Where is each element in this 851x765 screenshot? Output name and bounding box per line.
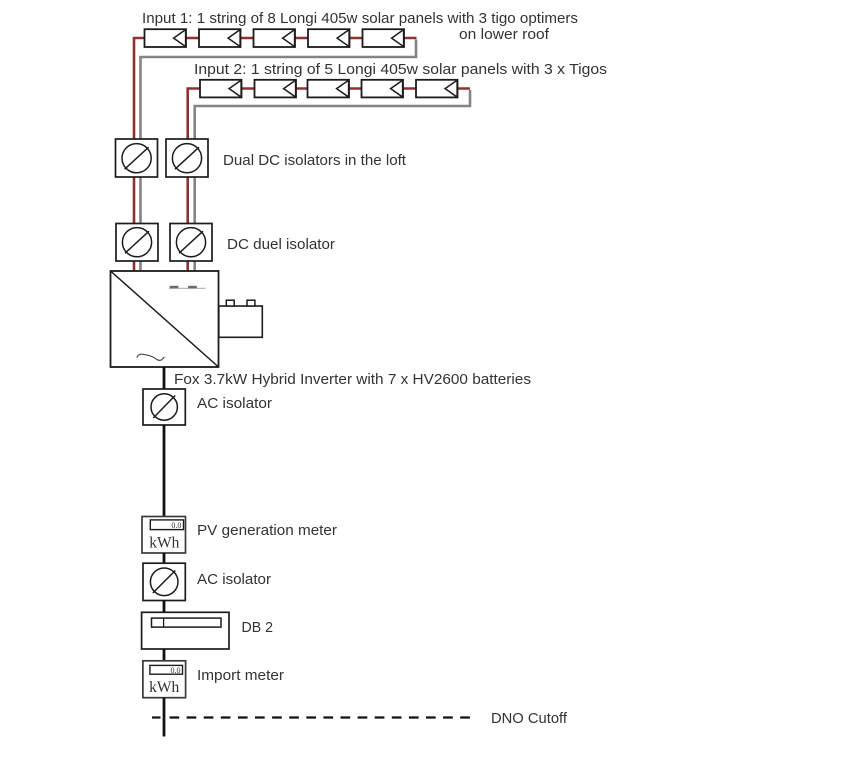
label: Fox 3.7kW Hybrid Inverter with 7 x HV2600 batteries xyxy=(174,372,531,388)
AC isolator SW6 xyxy=(143,563,185,600)
AC isolator SW5 xyxy=(143,389,185,425)
solar panel PV2-4 xyxy=(362,80,404,98)
solar panel PV1-2 xyxy=(199,29,241,47)
svg-text:AC isolator: AC isolator xyxy=(197,572,271,588)
wire: string 2 series links (dark red) behind panel row 2 xyxy=(205,87,470,90)
label: AC isolator (upper) xyxy=(197,396,272,412)
wire: string 1 return (gray) from panel row 1 right end down-left-down to inverter xyxy=(141,40,417,272)
svg-text:AC isolator: AC isolator xyxy=(197,396,272,412)
svg-text:0.0: 0.0 xyxy=(171,666,181,675)
wire: AC isolator to PV generation meter xyxy=(163,425,166,517)
svg-text:0.0: 0.0 xyxy=(171,521,181,530)
wire: import meter down past DNO cutoff xyxy=(163,698,166,737)
label: Dual DC isolators in the loft xyxy=(223,153,406,169)
svg-text:Import meter: Import meter xyxy=(197,668,284,684)
svg-text:Input 2: 1 string of 5 Longi 4: Input 2: 1 string of 5 Longi 405w solar … xyxy=(194,62,607,78)
wire: DB 2 to import meter xyxy=(163,649,166,661)
inverter AC sine symbol xyxy=(137,354,164,360)
svg-text:DNO Cutoff: DNO Cutoff xyxy=(491,711,568,727)
import meter M2 xyxy=(143,661,186,698)
wire: PV meter to AC isolator 2 xyxy=(163,553,166,563)
svg-text:PV generation meter: PV generation meter xyxy=(197,523,337,539)
wire: string 2 return (gray) from panel row 2 right end down-left-down to inverter xyxy=(195,90,470,271)
wire: string 2 positive (dark red) from panel row 2 left end down to inverter xyxy=(188,89,205,272)
PV generation meter M1 xyxy=(142,517,186,554)
solar panel PV2-1 xyxy=(200,80,242,98)
solar panel PV1-5 xyxy=(363,29,405,47)
wire: string 1 series links (dark red) behind panel row 1 xyxy=(150,37,417,40)
label: PV generation meter xyxy=(197,523,337,539)
DC isolator SW2 (loft, string 2) xyxy=(166,139,208,177)
label: Input 2 string description xyxy=(194,62,607,78)
label: AC isolator (lower) xyxy=(197,572,271,588)
DC isolator SW3 (at inverter, string 1) xyxy=(116,224,158,262)
solar panel PV2-5 xyxy=(416,80,458,98)
inverter U1 (Fox 3.7kW hybrid) xyxy=(111,271,219,367)
svg-text:DC duel isolator: DC duel isolator xyxy=(227,237,335,253)
label: DB 2 xyxy=(242,620,274,636)
solar panel PV1-4 xyxy=(308,29,350,47)
label: on lower roof xyxy=(459,27,550,43)
svg-text:kWh: kWh xyxy=(149,535,179,552)
inverter display dashes xyxy=(169,287,206,288)
label: Input 1 string description xyxy=(142,11,578,27)
solar panel PV1-3 xyxy=(254,29,296,47)
svg-text:Input 1: 1 string of 8 Longi 4: Input 1: 1 string of 8 Longi 405w solar … xyxy=(142,11,578,27)
DC isolator SW1 (loft, string 1) xyxy=(116,139,158,177)
battery pack B1 (7 x HV2600) xyxy=(219,300,262,337)
svg-text:Fox 3.7kW Hybrid Inverter with: Fox 3.7kW Hybrid Inverter with 7 x HV260… xyxy=(174,372,531,388)
solar panel PV2-2 xyxy=(255,80,297,98)
label: Import meter xyxy=(197,668,284,684)
svg-text:kWh: kWh xyxy=(149,679,179,696)
svg-text:Dual DC isolators in the loft: Dual DC isolators in the loft xyxy=(223,153,406,169)
solar panel PV1-1 xyxy=(145,29,187,47)
DC isolator SW4 (at inverter, string 2) xyxy=(170,224,212,262)
wire: string 1 positive (dark red) from panel row 1 left end down to inverter xyxy=(134,38,150,271)
wire: AC isolator 2 to DB 2 xyxy=(163,601,166,613)
solar panel PV2-3 xyxy=(308,80,350,98)
label: DNO Cutoff xyxy=(491,711,568,727)
distribution board DB2 xyxy=(142,612,229,649)
label: DC duel isolator xyxy=(227,237,335,253)
DNO cutoff dashed boundary line xyxy=(152,716,475,718)
svg-text:on lower roof: on lower roof xyxy=(459,27,550,43)
svg-text:DB 2: DB 2 xyxy=(242,620,274,636)
wire: AC output from inverter to AC isolator xyxy=(163,367,166,389)
